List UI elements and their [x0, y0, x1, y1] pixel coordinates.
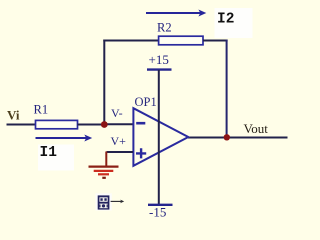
op-amp plus input symbol: [136, 148, 146, 158]
resistor R1: [36, 120, 78, 128]
embedded object icon: [95, 193, 111, 210]
wire R1 to node A: [78, 124, 107, 126]
node A junction dot: [101, 121, 108, 128]
svg-text:R1: R1: [34, 103, 49, 117]
svg-text:OP1: OP1: [135, 95, 157, 109]
label I2: [215, 8, 253, 38]
svg-text:-15: -15: [149, 205, 166, 220]
svg-text:V-: V-: [111, 106, 123, 120]
wire feedback right vertical: [226, 40, 228, 138]
power +15 supply: [147, 52, 172, 70]
wire supply vertical through op-amp: [158, 70, 160, 205]
current arrow I1: [36, 135, 93, 142]
svg-text:I1: I1: [40, 145, 58, 161]
ground: [89, 152, 119, 178]
wire output: [188, 137, 288, 139]
wire input from Vi to R1: [7, 124, 37, 126]
op-amp OP1: [133, 108, 188, 166]
label I1: [38, 145, 74, 171]
svg-text:+15: +15: [149, 52, 169, 67]
wire feedback left vertical: [103, 40, 105, 125]
wire V+ input: [107, 151, 134, 153]
icon pointer arrow: [111, 200, 125, 204]
svg-text:Vout: Vout: [244, 121, 269, 136]
node output junction dot: [224, 134, 230, 140]
op-amp minus input symbol: [136, 122, 145, 125]
current arrow I2: [146, 10, 206, 17]
svg-text:I2: I2: [217, 12, 234, 28]
svg-text:Vi: Vi: [7, 108, 20, 123]
wire node A to op-amp inverting input: [104, 123, 133, 125]
power -15 supply: [148, 205, 173, 220]
svg-text:V+: V+: [111, 134, 127, 148]
wire R2 to right corner: [203, 40, 228, 42]
wire feedback top left segment: [103, 40, 159, 42]
resistor R2: [159, 36, 203, 45]
svg-text:R2: R2: [157, 21, 172, 35]
